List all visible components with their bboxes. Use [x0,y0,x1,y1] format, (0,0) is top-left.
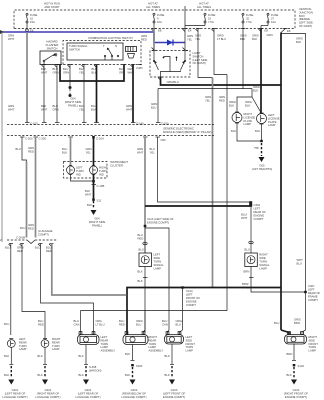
ground G403 label [75,388,100,399]
svg-text:FRONT: FRONT [186,342,196,346]
svg-text:LEFT: LEFT [186,335,193,339]
svg-text:LEFT SIDE: LEFT SIDE [299,21,313,25]
svg-text:JUNCTION: JUNCTION [299,10,313,14]
svg-text:E8: E8 [158,29,162,33]
svg-text:G401: G401 [45,388,52,392]
pin at 285 [283,28,288,30]
svg-text:TURN: TURN [154,260,162,264]
svg-text:GRN: GRN [219,95,225,99]
svg-text:IND: IND [76,172,81,176]
label BLK license2 [255,129,260,133]
svg-text:REAR: REAR [19,340,27,344]
combination lighting switch label [88,36,133,40]
svg-text:BLU: BLU [63,67,68,71]
svg-text:BLU: BLU [138,233,143,237]
wire x251 down to lamp [245,206,254,253]
wire pin198 to gray vertical [198,29,213,78]
svg-text:C124: C124 [186,289,193,293]
license ground join [237,123,263,143]
svg-text:BLU: BLU [53,104,58,108]
svg-text:RIGHT: RIGHT [52,337,61,341]
svg-text:BLU: BLU [176,323,181,327]
label WHT/BLU x305 [297,258,304,266]
fuse F4 7.5A [242,13,254,24]
svg-text:7.5A: 7.5A [246,20,252,24]
svg-text:BRN: BRN [287,352,293,356]
svg-text:TURN: TURN [76,169,84,173]
svg-text:SIDE: SIDE [186,338,193,342]
hazard flasher switch label [46,40,59,51]
combination switch pins [58,65,142,68]
label BLU/BLK cluster [62,147,67,155]
GEM boundary dashed upper [7,124,214,126]
label S58 [254,146,259,150]
svg-text:CAN: CAN [162,323,168,327]
svg-text:TURN: TURN [99,169,107,173]
lamp5 label [186,335,196,353]
lamp5 left front turn [165,332,184,344]
svg-text:ORG/: ORG/ [240,34,247,38]
connector C124 label [186,289,200,307]
svg-text:BLK: BLK [125,373,130,377]
svg-text:BLK: BLK [79,67,84,71]
combination switch inner box [67,43,123,60]
junction dot x305 [304,291,307,293]
svg-text:ORG/BLU: ORG/BLU [167,80,179,84]
svg-text:(LEFT REAR OF: (LEFT REAR OF [5,392,26,396]
svg-text:7.5A: 7.5A [208,20,214,24]
ground G103 label [163,388,186,399]
wire pin238 license feed [242,29,244,90]
wire x157 GEM out to y202 [158,137,250,202]
svg-text:BLU/: BLU/ [46,246,52,250]
svg-text:ALL TIMES: ALL TIMES [197,5,211,9]
svg-text:LAMP: LAMP [186,349,194,353]
hazard box pins [42,65,59,68]
label ORG/BLK x305 [296,37,303,45]
svg-text:BLK: BLK [79,354,84,358]
svg-text:GRN: GRN [141,34,147,38]
svg-text:BRN: BRN [294,321,300,325]
instrument cluster dashed box [64,162,108,179]
svg-text:ENGINE COMPT): ENGINE COMPT) [147,221,169,225]
svg-text:C-10B: C-10B [97,184,105,188]
label ORG above lamp3b [96,319,105,327]
svg-text:ORG/: ORG/ [253,85,260,89]
indicator left label [76,166,84,177]
svg-text:TURN: TURN [19,344,27,348]
svg-text:COMBINATION LIGHTING SWITCH: COMBINATION LIGHTING SWITCH [88,36,133,40]
svg-text:(LIFT HEIGHTS): (LIFT HEIGHTS) [252,167,273,171]
svg-text:GRN: GRN [53,71,59,75]
svg-text:G404: G404 [131,388,138,392]
svg-text:SIDE: SIDE [259,256,266,260]
svg-text:LAMP: LAMP [154,267,162,271]
label BLK/WHT cluster gnd [85,189,92,197]
svg-text:G104: G104 [293,388,300,392]
svg-text:BLK: BLK [165,354,170,358]
svg-text:C-10A: C-10A [96,137,104,141]
label BLU/BLK pin96 [92,67,97,75]
svg-text:E8: E8 [265,29,269,33]
svg-text:BLK: BLK [253,89,258,93]
label BLU bottom3 [35,246,40,250]
connector label C114 [147,217,174,225]
svg-text:FRAME: FRAME [308,295,318,299]
svg-text:RED: RED [138,237,144,241]
lamp3 label [101,335,116,353]
lamp right side label [259,253,270,271]
wire pin133 down thick [131,65,144,126]
wire U loop pin60 to pin124 [60,65,124,82]
svg-text:WHT: WHT [85,193,92,197]
svg-text:YEL: YEL [79,108,85,112]
fuse F5 10A [267,13,279,24]
label GRN/WHT pin133 [128,67,135,75]
svg-text:BLK: BLK [62,151,67,155]
label BLK license1 [231,129,236,133]
svg-text:S404: S404 [136,364,143,368]
svg-text:LEFT: LEFT [101,335,108,339]
label ORG/BLK lamp1 [229,100,236,108]
svg-text:BRN: BRN [244,270,250,274]
wire fuse F1 to pin [26,23,34,33]
svg-text:REAR OF: REAR OF [254,210,267,214]
svg-text:BLK: BLK [79,104,84,108]
ground G05 [259,143,265,162]
svg-text:BLK: BLK [245,104,250,108]
svg-text:LAMP: LAMP [309,349,317,353]
pin below brace 4 [49,244,127,296]
svg-text:BLU: BLU [136,323,141,327]
svg-text:BLU: BLU [162,319,167,323]
ground G05 label [252,164,273,172]
svg-text:FLASHER: FLASHER [46,43,59,47]
svg-text:G05: G05 [259,164,265,168]
lamp left license plate [257,113,267,124]
svg-text:HOT AT: HOT AT [199,2,209,6]
svg-text:BLK: BLK [4,373,9,377]
svg-text:ORG/: ORG/ [217,34,224,38]
svg-text:HOT AT: HOT AT [148,2,158,6]
svg-text:GRN: GRN [28,223,34,227]
svg-text:10: 10 [30,16,34,20]
svg-text:ENGINE: ENGINE [186,300,197,304]
svg-text:GRN: GRN [63,71,69,75]
lamp1 ground chain [4,347,14,384]
wire lamp4 right pin from x145 [144,311,146,335]
svg-text:BLK: BLK [41,104,46,108]
central junction box label [299,7,313,28]
svg-text:TURN: TURN [101,342,109,346]
svg-text:(RIGHT SIDE: (RIGHT SIDE [89,220,106,224]
pin at 214 [212,29,217,32]
wire gray x212 down [212,78,214,288]
svg-text:LAMP: LAMP [52,347,60,351]
svg-text:S104: S104 [298,364,305,368]
wire x169 to lamp5 left pin [168,311,170,335]
lamp3 left rear assembly [78,332,100,345]
hazard switch bottom pin [158,77,163,80]
svg-text:BLU: BLU [62,147,67,151]
pin below x35 [34,137,47,141]
svg-text:GRN: GRN [8,104,14,108]
svg-text:C-2008: C-2008 [16,236,25,240]
svg-text:LEFT: LEFT [268,113,275,117]
svg-text:BLU: BLU [297,262,302,266]
wire cluster left down [70,137,72,166]
svg-text:ASSEMBLY: ASSEMBLY [101,349,116,353]
svg-text:GRN: GRN [267,33,273,37]
svg-text:TURN: TURN [309,345,317,349]
svg-text:LAMP: LAMP [268,123,276,127]
svg-text:C-200: C-200 [39,137,47,141]
light switch label [193,51,208,65]
svg-text:C304: C304 [254,203,261,207]
label C483 pin140 [136,66,143,70]
svg-text:RED: RED [38,323,44,327]
svg-text:SIGNAL: SIGNAL [259,263,270,267]
svg-text:PANEL): PANEL) [68,103,78,107]
svg-text:RIGHT: RIGHT [244,112,253,116]
svg-text:C80: C80 [161,138,167,142]
label BLU/GRN pin124 [119,67,125,75]
lighting switch component [126,47,137,59]
svg-text:ORG/: ORG/ [245,100,252,104]
svg-text:BLK: BLK [38,373,43,377]
cluster label [110,160,128,167]
svg-text:AND START: AND START [44,5,60,9]
svg-text:ASSEMBLY: ASSEMBLY [149,349,164,353]
lamp5 ground chain [165,344,176,385]
label ORG/BLU above lamp4b [136,319,143,327]
svg-text:HAZARD: HAZARD [46,40,57,44]
pin cluster right [92,136,104,141]
wire thick y206 to C304 [145,201,252,207]
svg-text:BLU: BLU [35,246,40,250]
turn signal switch contacts [103,44,119,60]
svg-text:GRN: GRN [28,146,34,150]
svg-text:758: 758 [254,146,259,150]
svg-text:FRONT OF: FRONT OF [186,296,200,300]
label ORG/BLK lamp2 [245,100,252,108]
svg-text:BLK: BLK [138,270,143,274]
svg-text:FUSE: FUSE [246,13,254,17]
wire gray x145 down [144,137,146,253]
svg-text:INSTRUMENT: INSTRUMENT [110,160,128,164]
label BLU above lamp3 [74,319,80,327]
turn hazard switch dashed box [150,51,190,78]
svg-text:15A: 15A [30,20,35,24]
svg-text:C407: C407 [308,284,315,288]
lamp3 ground chain [79,345,102,385]
svg-text:GRN: GRN [8,34,14,38]
lamp left side label [154,253,165,271]
svg-text:BLK: BLK [165,373,170,377]
svg-text:BRN/: BRN/ [242,282,249,286]
label ORG/LTBLU x214 [217,34,226,42]
wire thin y89 horizontal [158,88,252,90]
svg-text:GRN: GRN [187,34,193,38]
label ORG/BLU hazard out [167,80,179,84]
GEM label [163,127,211,135]
svg-text:BLU: BLU [38,319,43,323]
svg-text:WHT: WHT [8,108,15,112]
fuse F2 10A [153,13,165,24]
svg-text:GRN: GRN [205,95,211,99]
label GRN/RED x35 low [28,223,34,231]
svg-text:LIGHT: LIGHT [193,51,201,55]
svg-text:BLU: BLU [151,106,156,110]
wire hazard pin2 down [55,65,60,123]
svg-text:GRN: GRN [137,147,143,151]
lamp2 label [52,337,61,351]
svg-text:15: 15 [208,16,212,20]
turn switch small text [69,44,88,51]
svg-text:BOX: BOX [299,14,305,18]
svg-text:GRN: GRN [126,104,132,108]
svg-text:ORG/: ORG/ [176,319,183,323]
svg-text:TURN SIGNAL: TURN SIGNAL [69,44,88,48]
lamp6 right front turn [285,332,307,344]
lamp right license plate [232,112,242,123]
svg-text:WHT: WHT [41,71,48,75]
svg-text:BLU: BLU [5,246,10,250]
svg-text:TURN: TURN [186,345,194,349]
label BLK/YEL pin84 [79,67,85,75]
node HOT AT ALL TIMES label [146,2,160,10]
wire branch to x169 [145,228,169,311]
ground G04 cluster [87,201,97,215]
lamp1 label [19,337,27,351]
label ORG/BLK at y89 end [253,85,260,93]
svg-text:BLK: BLK [4,354,9,358]
svg-text:BLK: BLK [240,37,245,41]
lamp right license label [244,112,256,126]
svg-text:BLU: BLU [4,322,9,326]
label GRN/YEL at x185 [187,34,193,42]
pin cluster left [69,136,74,138]
svg-text:LAMP: LAMP [149,345,157,349]
svg-text:REAR: REAR [101,338,109,342]
label GRN/RED x35 [28,146,34,154]
svg-text:LEFT: LEFT [154,253,161,257]
wire fuse F4 to pin [241,23,246,29]
svg-text:RED: RED [141,38,147,42]
ground G04 cluster label [89,217,106,228]
svg-text:LAMP: LAMP [259,267,267,271]
wire x182 down to lamp5 right pin [180,288,183,335]
svg-text:PANEL): PANEL) [92,224,102,228]
svg-text:S-308: S-308 [89,365,97,369]
svg-text:CAN: CAN [74,323,80,327]
svg-text:G04: G04 [94,217,100,221]
svg-text:(BESIDE: (BESIDE [299,17,310,21]
label BLU/RED x145 [138,233,144,241]
lamp4 ground chain [125,345,143,385]
svg-text:GRN: GRN [53,108,59,112]
svg-text:BLK: BLK [231,129,236,133]
svg-text:BLK: BLK [125,352,130,356]
svg-text:BLK: BLK [38,354,43,358]
svg-text:(RIGHT SIDE: (RIGHT SIDE [65,100,82,104]
wire below left side lamp [138,267,148,334]
svg-text:GRN: GRN [151,102,157,106]
svg-text:FUSE: FUSE [157,13,165,17]
lamp2 right rear turn [41,339,49,348]
svg-text:WHT: WHT [297,258,304,262]
node HOT AT ALL TIMES label 2 [197,2,211,10]
svg-text:ALL TIMES: ALL TIMES [146,5,160,9]
svg-text:LEFT: LEFT [186,293,193,297]
central junction box (dashed) [14,10,295,29]
svg-text:GRN: GRN [86,147,92,151]
label BLU/RED bottom4 [46,246,52,254]
wire x227 down to corner [81,75,228,311]
svg-text:BLU: BLU [91,104,96,108]
wire pin285 to x305 [281,29,306,288]
license feed split [237,89,262,114]
svg-text:REAR: REAR [52,340,60,344]
lamp6 ground chain [287,344,305,385]
ground G401 label [2,388,27,399]
wire gray fuse F2 to hazard switch [153,29,155,51]
label ORG/BLK x261 [252,34,259,42]
svg-text:E8: E8 [287,29,291,33]
svg-text:LICENSE: LICENSE [244,115,256,119]
svg-text:27: 27 [271,16,275,20]
svg-text:COMPT: COMPT [308,298,318,302]
svg-text:(LEFT FRONT OF: (LEFT FRONT OF [163,392,186,396]
wire black pin185 to hazard switch [184,29,186,51]
svg-text:BLU: BLU [245,248,250,252]
pin below x145 [143,136,148,138]
wire blue main feed [0,30,154,34]
svg-text:ORG/: ORG/ [229,100,236,104]
fuse F3 7.5A [204,13,216,24]
wire thick y287 horizontal [127,288,281,335]
label BLU/RED above lamp4 [119,319,125,327]
svg-text:RED: RED [17,249,23,253]
wire hazard pin1 down [42,65,47,123]
svg-text:FUSE: FUSE [30,13,38,17]
svg-text:(REAR BELOW OF: (REAR BELOW OF [122,392,146,396]
svg-text:ENGINE COMPT): ENGINE COMPT) [163,395,185,399]
svg-text:BLU: BLU [150,147,155,151]
diode D1 [167,40,173,46]
wire pin214 jog [214,29,227,75]
wire GEM input from y89 [156,89,169,126]
label BLU x284 low [274,321,279,325]
svg-text:LICENSE: LICENSE [268,116,280,120]
lamp right side turn signal [245,253,257,267]
svg-text:ORG/: ORG/ [252,34,259,38]
svg-text:REAR: REAR [149,338,157,342]
label ORG/YEL x198 [195,34,201,42]
svg-text:C-200: C-200 [25,137,33,141]
pin below brace 1 [9,244,14,336]
svg-text:HOT IN RUN: HOT IN RUN [44,2,60,6]
svg-text:SWITCH: SWITCH [47,47,58,51]
svg-text:SIDE: SIDE [309,338,316,342]
connector oval x145 [139,242,148,251]
label GRN/YEL cluster [86,147,92,155]
svg-text:SWITCH: SWITCH [69,47,80,51]
lamp2 ground chain [38,347,49,384]
junction square x182 [181,286,184,288]
svg-text:IND: IND [99,172,104,176]
svg-text:YEL: YEL [86,151,92,155]
